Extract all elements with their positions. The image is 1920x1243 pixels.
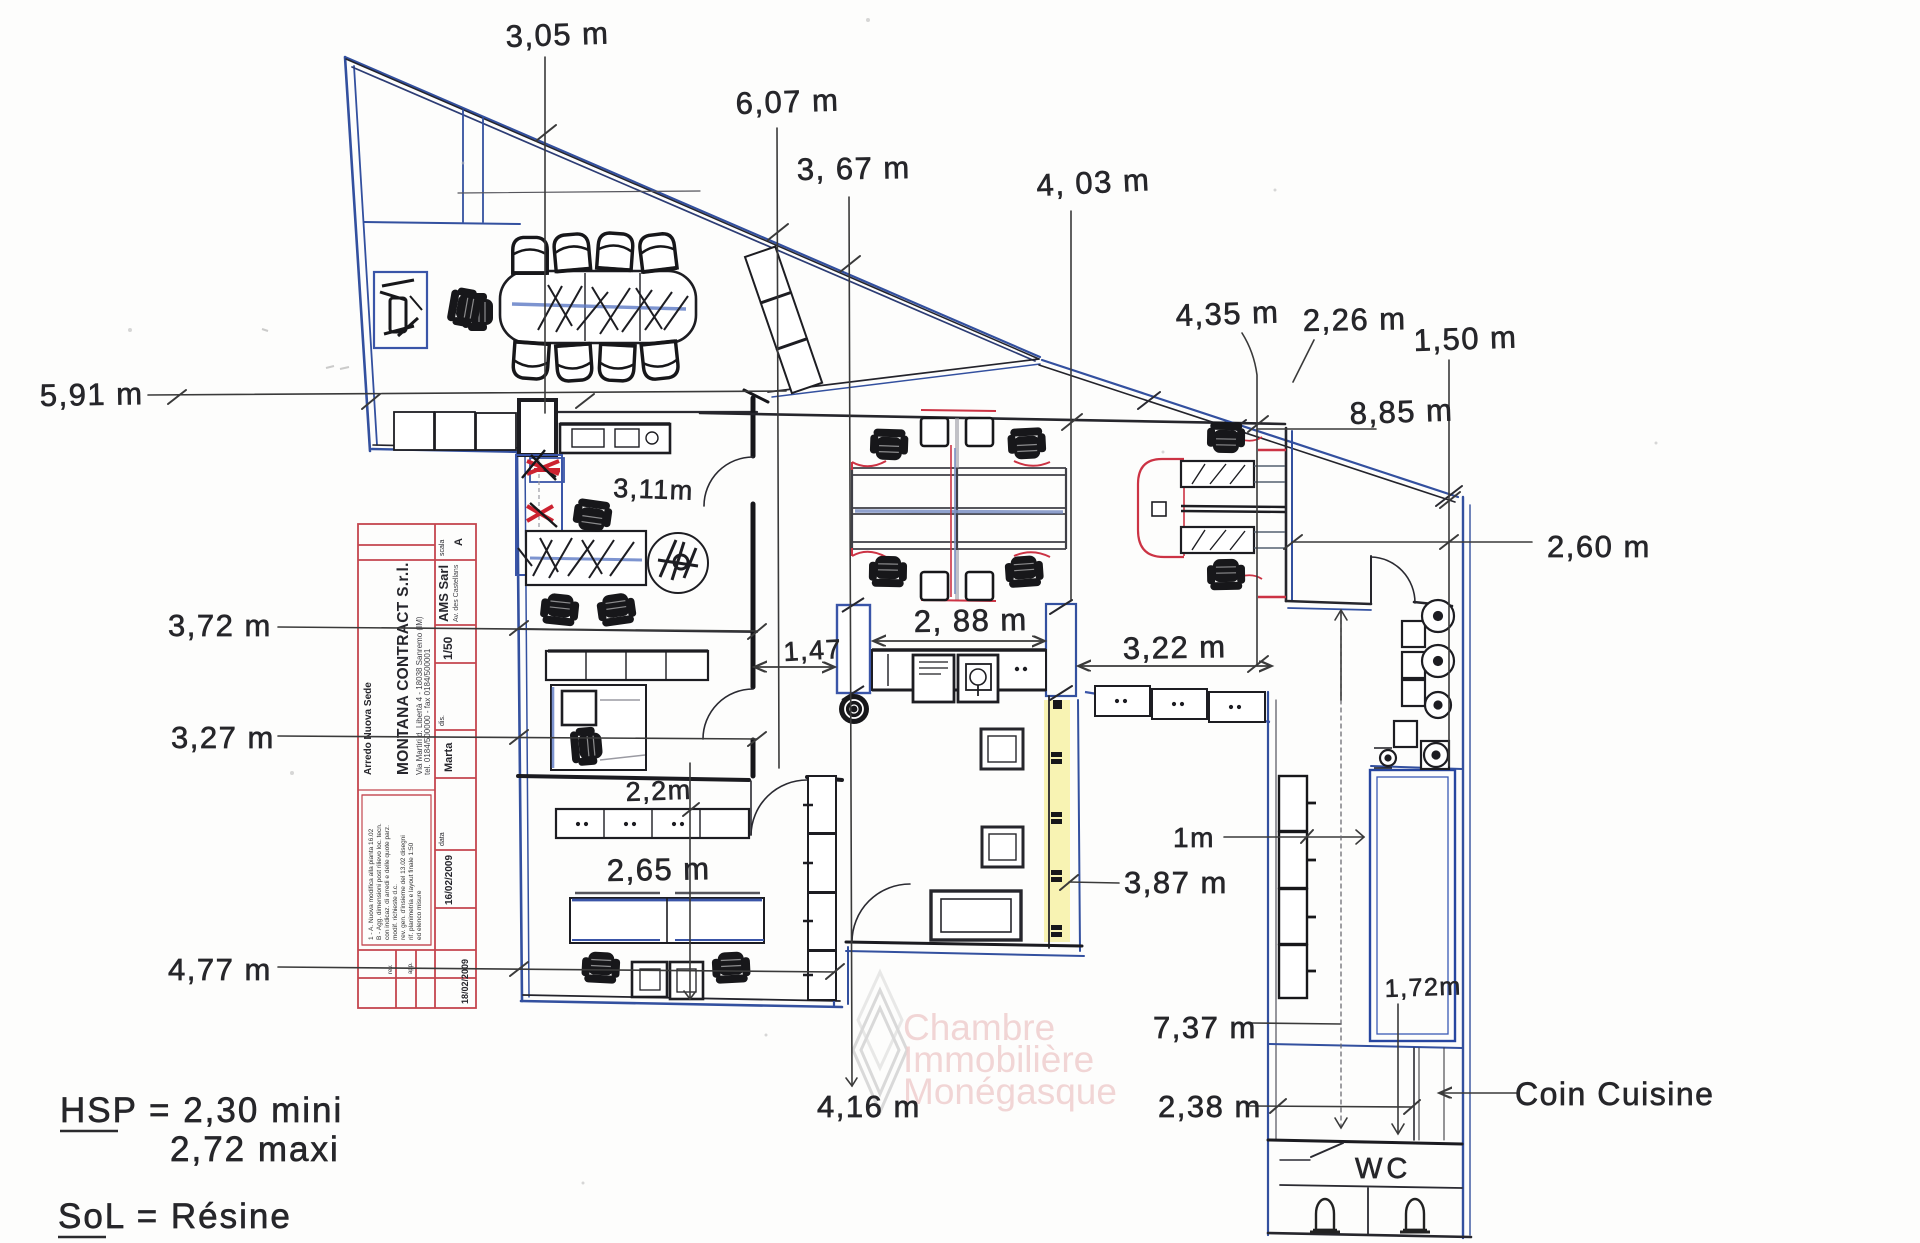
pillar stub near open space [1046, 604, 1076, 696]
door right office: swing arc [1371, 557, 1415, 603]
dim 3,72 horizontal [278, 627, 757, 631]
stray pen line along hypotenuse interior [458, 191, 700, 193]
svg-text:6,07 m: 6,07 m [735, 82, 840, 121]
svg-text:3,87 m: 3,87 m [1124, 865, 1228, 900]
svg-text:HSP = 2,30 mini: HSP = 2,30 mini [60, 1091, 343, 1130]
svg-text:4,16 m: 4,16 m [817, 1089, 921, 1124]
middle room large frame (tv) [931, 891, 1021, 940]
closet top-left: bottom edge [364, 222, 520, 224]
office1 chair behind desk [572, 498, 614, 534]
junction scribble at 756,396 [744, 390, 768, 402]
wall: right slanted facade inner [1039, 365, 1455, 502]
svg-text:Av. des Castellans: Av. des Castellans [453, 564, 460, 622]
WC entry jog line [1280, 1159, 1310, 1161]
svg-text:Coin Cuisine: Coin Cuisine [1515, 1076, 1714, 1112]
svg-text:2,72 maxi: 2,72 maxi [170, 1130, 340, 1169]
wall: left wall middle section outer [517, 452, 522, 1001]
wall cabinets right of 3,22 [1085, 686, 1270, 722]
wall: bottom outer [1268, 1233, 1471, 1237]
wall: left wall middle section inner [525, 455, 529, 997]
conference chair left end [462, 293, 493, 331]
entry door thick box [519, 400, 556, 455]
wall: bottom of lower-left room [521, 1001, 842, 1007]
pillar left of kitchen counter [837, 605, 870, 693]
coin cuisine counter divider 2 [1418, 1048, 1420, 1140]
svg-text:4,77 m: 4,77 m [168, 952, 272, 987]
door lower-left room: leaf [750, 781, 752, 835]
closet top-left: partition vertical [462, 110, 464, 222]
svg-text:2,2m: 2,2m [625, 775, 692, 807]
red cross marks [527, 461, 559, 474]
tick at facade corner [1436, 486, 1462, 506]
office2 desk [551, 685, 646, 770]
kitchen hob squares column [1394, 621, 1425, 747]
svg-text:3,22 m: 3,22 m [1123, 629, 1227, 666]
wall: hypotenuse outer [345, 57, 1040, 357]
wall: right wall of lower-left room [833, 776, 835, 1006]
wall: right office bottom right part [1414, 602, 1452, 606]
wall: right slanted faсade outer [1042, 360, 1458, 497]
column circle below pillar [839, 694, 869, 724]
svg-text:3,27 m: 3,27 m [171, 720, 275, 755]
conference table [500, 271, 696, 343]
wall: top of lower-left room (left of door) [518, 776, 749, 780]
dim 1,47 arrow [756, 666, 833, 668]
kitchenette counter [872, 650, 1046, 702]
dim 6,07 vertical [777, 128, 779, 768]
wall: kitchen corner bottom [1371, 766, 1462, 769]
up arrow near 7,37 top [1340, 612, 1342, 700]
dim 3,22 arrow [1080, 665, 1270, 667]
office1 decorative circle with scribble [648, 533, 708, 593]
svg-text:scala: scala [439, 540, 446, 556]
dim 7,37 leader [1250, 1023, 1341, 1024]
wall: right wing left inner [1275, 700, 1277, 1140]
svg-text:1 - A. Nuova modifica alla pia: 1 - A. Nuova modifica alla pianta 16.02 [368, 828, 375, 940]
svg-text:1,50 m: 1,50 m [1413, 319, 1518, 358]
bottom-left notes [58, 1091, 343, 1237]
svg-text:2, 88 m: 2, 88 m [914, 602, 1028, 639]
wall: top of lower-left room (right of door) [807, 777, 842, 780]
slanted cabinet row right of conference room [745, 247, 822, 394]
middle room picture frame 2 [982, 827, 1023, 867]
svg-text:4,35 m: 4,35 m [1175, 294, 1280, 333]
wall: conference bottom [520, 411, 757, 413]
svg-text:rev.: rev. [388, 964, 394, 974]
wall: right outer vertical inner line [1469, 505, 1471, 1235]
svg-text:rif. planimetria e layout fina: rif. planimetria e layout finale 1:50 [408, 842, 415, 940]
svg-text:Arredo Nuova Sede: Arredo Nuova Sede [363, 682, 374, 775]
wall: middle room lower-left vertical [847, 947, 849, 1004]
svg-text:1,47: 1,47 [783, 634, 843, 667]
office1: wardrobe blue left [516, 450, 562, 575]
svg-text:Marta: Marta [443, 742, 455, 772]
wall: central thick wall segment C [751, 740, 756, 776]
svg-text:18/02/2009: 18/02/2009 [460, 959, 470, 1004]
right duo desks [1152, 461, 1285, 553]
dim 1,50 vertical [1448, 360, 1450, 766]
dim 4,35 leader + vertical [1242, 333, 1257, 665]
WC stall divider vertical [1367, 1188, 1369, 1234]
WC door swing tick [1311, 1143, 1343, 1157]
svg-text:2,26 m: 2,26 m [1303, 301, 1407, 338]
svg-text:rev. gen. d'insieme del 13.02: rev. gen. d'insieme del 13.02 disegni [400, 835, 407, 940]
right wing wardrobe column [1279, 776, 1316, 998]
open space red cable lines [852, 410, 1050, 601]
dim 8,85 horizontal [1257, 428, 1376, 430]
credenza with equipment [560, 424, 670, 453]
svg-text:5,91 m: 5,91 m [40, 376, 144, 413]
svg-text:16/02/2009: 16/02/2009 [444, 855, 455, 905]
dim 3,27 horizontal [278, 736, 757, 739]
wall: office1/office2 divider [518, 629, 757, 632]
wall: hypotenuse inner [352, 67, 1035, 361]
wall: open space top [700, 413, 1285, 424]
office2 cabinet row [546, 651, 708, 680]
dim 2,2 / 2,65 vertical [689, 763, 691, 999]
closet top-left: right vertical [482, 118, 484, 222]
svg-text:4, 03 m: 4, 03 m [1036, 162, 1152, 203]
dim 1m line [1224, 836, 1364, 838]
svg-text:2,65 m: 2,65 m [607, 851, 711, 888]
svg-text:con indicaz. di arredi e delle: con indicaz. di arredi e delle quote par… [384, 825, 391, 940]
coin cuisine counter divider 1 [1413, 1048, 1415, 1140]
paper specks [262, 329, 349, 369]
office1 guest chairs [539, 592, 580, 627]
dim 3,05 vertical [544, 57, 546, 413]
tick on slanted facade 1 [1138, 392, 1160, 409]
wall: return from apex upper [768, 359, 1039, 392]
svg-text:AMS Sarl: AMS Sarl [436, 565, 451, 622]
svg-text:modif. richieste d.c.: modif. richieste d.c. [392, 884, 399, 940]
wall: conference room left outer [345, 57, 370, 451]
dim 4,03 vertical [1070, 211, 1072, 600]
wall: right office bottom left part [1286, 601, 1371, 604]
dim 4,77 horizontal [278, 967, 836, 972]
svg-text:8,85 m: 8,85 m [1349, 392, 1454, 431]
dim 3,87 leader [1069, 882, 1119, 883]
outlet glyphs on yellow strip [1051, 700, 1062, 937]
office1 desk [518, 531, 646, 585]
lower-left room side tables [632, 962, 703, 999]
coin cuisine arrow [1441, 1092, 1517, 1094]
svg-text:Monégasque: Monégasque [903, 1071, 1117, 1112]
open space bottom chairs [869, 556, 908, 588]
middle room picture frame 1 [981, 729, 1023, 769]
open space top chairs [870, 428, 909, 460]
printer box on wall below entry [530, 458, 564, 482]
svg-text:1/50: 1/50 [441, 636, 455, 660]
coin cuisine right divider [1443, 1048, 1445, 1140]
WC stall divider horizontal [1280, 1185, 1462, 1188]
wall: middle room bottom dark [846, 942, 1082, 946]
dim 3,67 / 4,16 vertical [849, 197, 852, 1086]
svg-text:tel. 0184/500000 - fax 0184/50: tel. 0184/500000 - fax 0184/500001 [423, 648, 432, 775]
wall: coin cuisine top [1268, 1044, 1462, 1048]
right duo desk cluster red outline [1138, 436, 1286, 597]
wall: central thick wall segment A [751, 398, 756, 456]
lower-left room cabinet row [556, 809, 749, 838]
svg-text:dis.: dis. [439, 715, 446, 726]
wall: middle room right side blue [1078, 700, 1080, 951]
lower-left room double desk [570, 893, 764, 943]
svg-text:MONTANA CONTRACT S.r.l.: MONTANA CONTRACT S.r.l. [395, 562, 412, 775]
dim 7,37 dotted vertical [1340, 612, 1342, 1126]
middle room yellow highlighted wall strip [1044, 700, 1070, 942]
conference chairs top row [513, 237, 548, 273]
wall: middle room right side dark [1048, 696, 1050, 948]
door lower-left room: swing arc [751, 780, 807, 835]
svg-text:3,05 m: 3,05 m [505, 15, 610, 54]
dim 5,91 horizontal [148, 391, 786, 395]
svg-text:1m: 1m [1173, 822, 1215, 853]
svg-text:ed elenco misure: ed elenco misure [416, 890, 423, 940]
wall: right office left wall blue [1291, 431, 1293, 601]
tick on slanted facade 2 [1222, 420, 1246, 438]
wall: return from apex lower blue [772, 364, 1040, 397]
dim 2,88 arrow [875, 640, 1043, 642]
svg-text:7,37 m: 7,37 m [1153, 1010, 1257, 1045]
dim 2,60 horizontal [1292, 541, 1532, 543]
dim 2,38 line [1250, 1106, 1412, 1107]
wall: conference room left inner [354, 66, 377, 445]
sideboard cabinet blue top-left of conference [374, 272, 427, 348]
open space CPU boxes [921, 418, 993, 600]
door middle room: swing arc [852, 884, 910, 942]
svg-text:data: data [439, 832, 446, 846]
door right office: leaf [1370, 556, 1372, 604]
wall: hypotenuse outer pen retrace [346, 59, 1039, 359]
door office1: swing arc [704, 457, 753, 506]
wall: central thick wall segment B [751, 504, 756, 687]
kitchen burner circles [1374, 600, 1454, 769]
svg-text:1,72m: 1,72m [1384, 972, 1462, 1003]
wall: middle room bottom blue [846, 951, 1084, 956]
office2 chair [569, 726, 603, 767]
wall: right office left wall dark [1285, 428, 1288, 601]
right duo chairs [1207, 422, 1246, 454]
svg-text:3,72 m: 3,72 m [168, 608, 272, 643]
door office2: swing arc [703, 689, 753, 739]
dim 1,72 vertical arrow [1397, 1004, 1399, 1133]
svg-text:2,60 m: 2,60 m [1547, 529, 1651, 564]
wall: right wing left outer [1267, 692, 1269, 1235]
lower-left room chairs [581, 951, 621, 984]
wall: WC top [1268, 1140, 1462, 1144]
svg-text:3,11m: 3,11m [613, 473, 695, 506]
svg-text:2,38 m: 2,38 m [1158, 1089, 1262, 1124]
reserve room outer [1370, 770, 1455, 1041]
corridor cabinets below conference [394, 400, 670, 455]
lower-left room wardrobe column [803, 776, 836, 1000]
conference chairs bottom row [512, 342, 549, 380]
dim 2,26 leader [1293, 340, 1314, 382]
svg-text:A: A [453, 538, 465, 546]
svg-text:WC: WC [1355, 1153, 1411, 1185]
WC toilets [1313, 1199, 1337, 1230]
wall: conference bottom blue sill [372, 449, 523, 452]
open space desk cluster benches [852, 418, 1066, 600]
wall: right outer vertical [1462, 497, 1464, 1238]
reserve room inner [1377, 777, 1448, 1034]
svg-text:3, 67 m: 3, 67 m [797, 150, 911, 187]
svg-text:B - Agg. dimensioni post rilie: B - Agg. dimensioni post rilievo loc. te… [376, 823, 383, 940]
svg-text:SoL = Résine: SoL = Résine [58, 1197, 292, 1236]
